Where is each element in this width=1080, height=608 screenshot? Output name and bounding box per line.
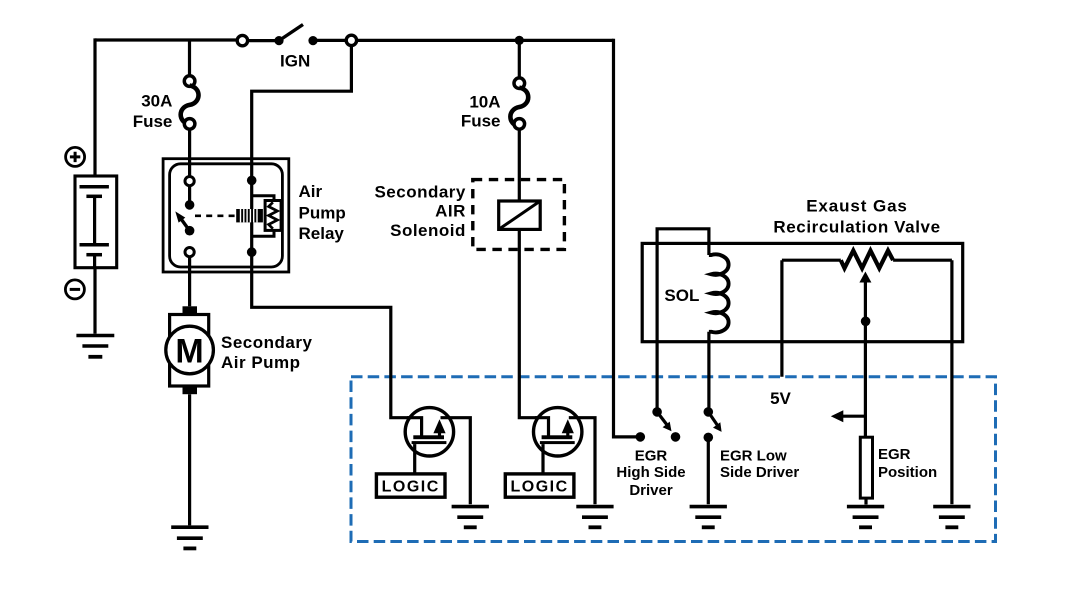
relay inner rounded box [170,164,283,267]
wire EGR feed down to high side driver [614,39,639,437]
EGR position sensor resistor [860,437,872,498]
relay switch blade with arrow [180,217,190,231]
svg-text:Recirculation Valve: Recirculation Valve [773,217,940,236]
wire relay terminal to contact [188,186,191,201]
relay outer box [163,159,289,272]
IGN terminal circle left [237,35,247,45]
potentiometer wiper arrow [859,272,871,283]
node high side wire end [636,432,646,442]
relay resistor frame [265,201,281,231]
node relay coil bottom [247,247,257,257]
SOL coil [709,254,729,332]
svg-text:EGR: EGR [635,447,668,464]
svg-text:Air Pump: Air Pump [221,353,301,372]
motor top terminal [183,306,198,314]
svg-text:Fuse: Fuse [133,112,173,131]
svg-text:AIR: AIR [435,201,466,220]
battery minus terminal symbol [65,280,84,299]
wire contact2 to circle2 [313,39,345,42]
svg-text:LOGIC: LOGIC [511,479,569,496]
svg-text:Secondary: Secondary [374,182,465,201]
EGR valve box [642,243,963,341]
ground battery [76,336,114,357]
wire IGN circle to contact [248,39,276,42]
svg-text:10A: 10A [469,93,500,112]
wire resistor to ground [864,498,867,504]
svg-text:Position: Position [878,464,937,481]
ECM dashed box [351,377,996,542]
wire 5V feed [780,260,783,377]
battery plus terminal symbol [66,147,85,166]
node top rail 10A junction [515,36,524,45]
svg-text:LOGIC: LOGIC [382,479,440,496]
wire top rail right [357,39,614,42]
node IGN contact left [274,36,283,45]
svg-text:5V: 5V [770,389,791,408]
wire top rail left [95,38,237,41]
wire fuse30 to relay [188,129,191,177]
potentiometer track wire left [782,259,841,262]
svg-text:EGR: EGR [878,446,911,463]
Secondary AIR Solenoid dashed box [473,180,565,250]
svg-text:30A: 30A [141,92,172,111]
IGN terminal circle right [346,35,356,45]
svg-text:IGN: IGN [280,52,310,71]
EGR low side switch lower contact [704,433,714,443]
secondary AIR solenoid symbol [499,201,541,229]
secondary air pump motor [170,315,209,387]
node relay coil top [247,176,257,186]
ground mosfet1 [452,507,489,528]
5V reference arrow on wiper [842,415,865,418]
fuse 10A [510,78,528,129]
relay switch lower contact [185,226,195,236]
svg-text:Air: Air [299,182,323,201]
EGR high side switch blade [657,412,667,425]
logic box 2 [505,474,574,497]
svg-text:Secondary: Secondary [221,333,312,352]
EGR low side switch upper contact [704,407,714,417]
svg-text:Relay: Relay [299,224,345,243]
ground pot right leg [933,507,970,528]
svg-text:M: M [175,332,203,370]
relay switch upper contact [185,200,195,210]
relay switch top terminal [185,177,194,186]
potentiometer track wire right [893,259,952,262]
EGR high side switch lower contact [671,432,681,442]
EGR high side switch upper contact [652,407,662,417]
potentiometer zigzag [841,251,893,269]
ground EGR position [847,507,884,528]
svg-text:Solenoid: Solenoid [390,221,466,240]
fuse 30A [181,76,199,129]
relay coil core hatched box [236,209,263,222]
EGR low side switch blade [708,412,717,426]
wire 10A branch down through solenoid to mosfet2 [518,40,521,78]
svg-text:High Side: High Side [616,464,685,481]
relay switch bottom terminal [185,248,194,257]
ground air pump [171,527,208,548]
battery [75,176,117,268]
logic box 1 [376,474,445,497]
ground mosfet2 [576,507,613,528]
wire low side to ground [707,437,710,504]
relay actuation dashed link [195,215,236,218]
IGN switch blade [279,25,303,41]
svg-text:Fuse: Fuse [461,112,501,131]
wire IGN down-left-down to relay and mosfet1 [252,47,422,437]
motor bottom terminal [183,386,198,394]
relay resistor zigzag [269,202,278,228]
SOL coil bracket wire [657,229,709,413]
svg-text:Driver: Driver [629,482,673,499]
node wiper junction [861,317,871,327]
wire pot right leg to ground [950,260,953,504]
wire motor to ground [188,394,191,525]
svg-text:EGR Low: EGR Low [720,447,787,464]
node IGN contact right [308,36,317,45]
wire SOL coil to low side switch [707,332,710,412]
wire battery to ground [93,268,96,334]
wire 30A fuse drop [188,39,191,76]
mosfet driver 1 [405,408,470,505]
svg-text:Exaust Gas: Exaust Gas [806,196,908,215]
svg-text:SOL: SOL [664,286,699,305]
wire relay to motor [188,257,191,307]
ground low side driver [690,507,727,528]
relay coil bracket [252,196,274,237]
mosfet driver 2 [534,408,596,505]
svg-text:Pump: Pump [299,204,346,223]
wire battery drop [93,38,96,176]
svg-text:Side Driver: Side Driver [720,464,799,481]
